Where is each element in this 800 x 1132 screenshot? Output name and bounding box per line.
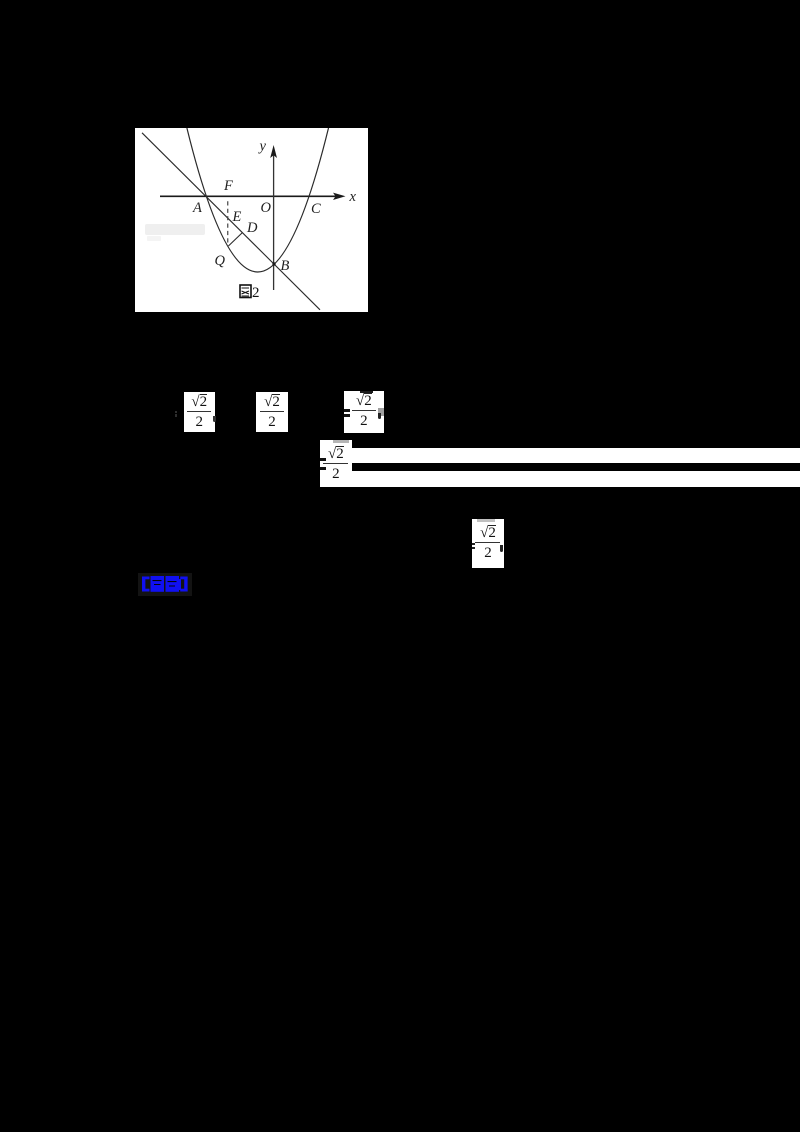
equals mark left of fraction 1 (faint, on black) (175, 411, 177, 413)
equals mark left of fraction 3 (344, 409, 350, 412)
comma right edge of fraction 1 (213, 416, 216, 422)
svg-text:C: C (311, 201, 321, 217)
fraction sqrt2/2 #3 with comma (344, 391, 384, 433)
equals mark at left edge of fraction 4 (320, 458, 326, 461)
svg-text:Q: Q (215, 253, 226, 269)
comma bottom right of fraction 5 (500, 545, 503, 552)
fraction sqrt2/2 #5 (row 3) with comma (472, 519, 503, 567)
figure: white coordinate-plane diagram (135, 128, 368, 312)
svg-text:2: 2 (252, 285, 260, 301)
x-axis (160, 195, 341, 197)
gray notch top of fraction 5 (477, 519, 495, 522)
white strip upper right of fraction 4 (352, 448, 800, 463)
equals mark at left edge of fraction 5 (472, 543, 475, 545)
svg-text:x: x (349, 189, 357, 205)
dashed FE segment (227, 201, 229, 246)
labels (192, 139, 357, 275)
fraction sqrt2/2 #4 (row 2) (320, 440, 352, 488)
blue annotation blob (138, 572, 194, 597)
QD segment (228, 233, 242, 247)
svg-text:D: D (246, 220, 258, 236)
gray block right-mid of fraction 3 (378, 408, 384, 415)
svg-text:O: O (261, 200, 272, 216)
svg-text:y: y (258, 139, 267, 155)
svg-text:E: E (232, 209, 242, 225)
caption 图2 (240, 285, 260, 301)
fraction sqrt2/2 #2 (256, 392, 288, 433)
y-axis (273, 155, 275, 290)
B dot (272, 262, 275, 265)
line through A and B (142, 133, 320, 310)
fraction sqrt2/2 #1 (184, 392, 216, 433)
svg-text:B: B (281, 258, 290, 274)
gray notch top of fraction 4 (333, 440, 349, 443)
comma right of fraction 3 (378, 413, 381, 419)
svg-text:A: A (192, 200, 202, 216)
svg-text:F: F (223, 178, 233, 194)
white strip lower right of fraction 4 (352, 471, 800, 487)
watermark (145, 224, 205, 235)
parabola (187, 128, 329, 272)
gray jpeg notch top of fraction 3 (360, 391, 373, 393)
